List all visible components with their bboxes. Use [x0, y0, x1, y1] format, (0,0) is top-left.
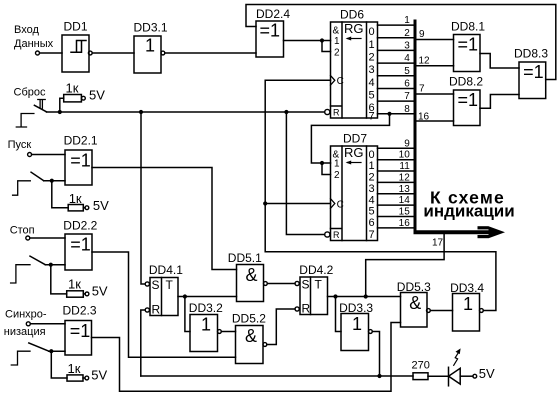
svg-text:1: 1 [334, 36, 340, 47]
svg-text:1к: 1к [68, 361, 81, 376]
svg-text:1к: 1к [66, 81, 79, 96]
svg-text:DD5.2: DD5.2 [232, 312, 266, 326]
pulse edge symbol at SB3 [11, 265, 30, 283]
pulse edge symbol at SB1 [16, 114, 34, 128]
wire Стоп terminal to DD2.2 in1 [30, 237, 65, 239]
junction clock line to DD7 C [263, 201, 267, 205]
junction DD4.2 out to DD3.3 [333, 294, 337, 298]
svg-text:DD5.1: DD5.1 [228, 251, 262, 265]
svg-text:=1: =1 [70, 151, 91, 171]
svg-text:DD2.1: DD2.1 [64, 134, 98, 148]
register DD6 [325, 22, 378, 118]
arrowhead of LED emission [456, 348, 461, 354]
svg-text:R: R [152, 303, 161, 317]
inverter DD3.2 [190, 315, 221, 352]
svg-text:5: 5 [369, 206, 375, 218]
flip-flop DD4.2 [295, 277, 328, 315]
wire DD5.3 out to DD3.4 in [430, 310, 452, 312]
svg-text:T: T [315, 278, 323, 292]
gate DD2.4 [256, 21, 284, 57]
wire DD7 output 2 [378, 170, 414, 172]
svg-text:9: 9 [419, 29, 425, 40]
svg-text:8: 8 [404, 104, 410, 115]
svg-text:=1: =1 [457, 35, 478, 55]
pulse edge symbol at SB2 [13, 181, 31, 195]
svg-text:DD4.1: DD4.1 [149, 263, 183, 277]
resistor R4 1к [67, 375, 83, 381]
inverter DD3.1 [134, 36, 165, 73]
wire DD6 output 7 [378, 113, 414, 115]
svg-text:10: 10 [399, 150, 411, 161]
node 5V terminal of R4 [85, 376, 89, 380]
svg-text:16: 16 [399, 218, 411, 229]
wire bus net 9 to DD8.1 in1 [417, 39, 454, 41]
svg-text:2: 2 [404, 28, 410, 39]
svg-text:0: 0 [369, 149, 375, 161]
svg-text:RG: RG [344, 145, 364, 160]
svg-text:=1: =1 [260, 21, 281, 41]
svg-text:5V: 5V [92, 284, 108, 299]
svg-text:2: 2 [334, 48, 340, 59]
svg-text:5V: 5V [479, 366, 495, 381]
svg-text:DD3.2: DD3.2 [189, 301, 223, 315]
svg-text:9: 9 [404, 138, 410, 149]
svg-text:5V: 5V [91, 368, 107, 383]
svg-text:S: S [152, 278, 160, 292]
gate DD8.3 [519, 62, 546, 99]
svg-text:DD2.3: DD2.3 [63, 304, 97, 318]
svg-text:&: & [409, 293, 421, 313]
svg-text:T: T [166, 278, 174, 292]
svg-text:7: 7 [369, 229, 375, 241]
svg-text:3: 3 [369, 64, 375, 76]
svg-text:7: 7 [369, 111, 375, 123]
wire DD6 output 6 [378, 100, 414, 102]
svg-text:=1: =1 [523, 62, 544, 82]
resistor R3 1к [67, 291, 84, 297]
svg-text:270: 270 [412, 360, 430, 372]
svg-text:Пуск: Пуск [8, 139, 32, 151]
svg-text:1: 1 [352, 314, 362, 334]
svg-text:DD8.3: DD8.3 [514, 47, 548, 61]
svg-text:&: & [245, 265, 257, 285]
wire loop to DD7 pin2 [322, 163, 331, 175]
svg-text:DD2.4: DD2.4 [256, 7, 290, 21]
wire down to R4 [51, 351, 85, 378]
svg-text:DD7: DD7 [343, 132, 367, 146]
wire DD6 output 4 [378, 75, 414, 77]
inverter DD3.4 [453, 294, 484, 332]
wire DD8.1 out to DD8.3 in1 [480, 54, 519, 69]
junction DD6 output 7 to DD7 data [387, 112, 391, 116]
wire DD3.4 out clock line to DD6 C [265, 80, 496, 310]
wire DD7 output 4 [378, 193, 414, 195]
node 5V terminal of R2 [85, 206, 89, 210]
svg-text:S: S [302, 278, 310, 292]
wire DD1 out to DD3.1 [92, 52, 134, 54]
svg-text:C: C [337, 199, 344, 210]
svg-text:3: 3 [369, 183, 375, 195]
node 5V terminal of R3 [85, 292, 89, 296]
wire DD3.3 out to LED line [372, 332, 379, 377]
wire SB3 to DD2.2 in2 [45, 264, 65, 266]
wire DD7 output 6 [378, 216, 414, 218]
wire DD2.1 out to DD5.1 in1 [92, 168, 237, 270]
svg-text:7: 7 [404, 91, 410, 102]
gate DD5.2 [236, 326, 267, 364]
switch SB1 Сброс push-button [34, 100, 46, 112]
wire pin 17 riser to bus [366, 233, 444, 297]
svg-text:6: 6 [404, 79, 410, 90]
svg-text:12: 12 [419, 55, 431, 66]
svg-text:низация: низация [4, 326, 46, 338]
svg-text:2: 2 [334, 170, 340, 181]
svg-text:DD3.3: DD3.3 [339, 301, 373, 315]
svg-text:5V: 5V [89, 88, 105, 103]
wire DD4.2 out to DD5.3 in1 [328, 296, 401, 298]
resistor R1 1к [64, 95, 82, 102]
svg-text:15: 15 [399, 207, 411, 218]
svg-text:Синхро-: Синхро- [5, 309, 47, 321]
junction reset to DD7 R [284, 110, 288, 114]
svg-text:Сброс: Сброс [14, 87, 46, 99]
svg-text:1: 1 [463, 294, 473, 314]
junction DD2.4 out loop [320, 38, 324, 42]
svg-text:17: 17 [432, 238, 444, 249]
gate DD5.3 [401, 293, 431, 328]
wire reset line SB1 to DD6 R [47, 111, 325, 113]
wire DD7 output 1 [378, 159, 414, 161]
svg-text:DD8.1: DD8.1 [451, 20, 485, 34]
node 5V terminal of R1 [82, 96, 86, 100]
wire DD6 output 7 to DD7 pin1 [311, 114, 389, 163]
svg-text:4: 4 [369, 194, 375, 206]
gate DD2.2 [65, 234, 92, 270]
wire reset down to DD7 R [286, 112, 324, 235]
svg-text:RG: RG [344, 21, 364, 36]
wire DD7 output 0 [378, 147, 414, 149]
svg-text:11: 11 [399, 161, 410, 172]
svg-text:1к: 1к [68, 277, 81, 292]
svg-text:&: & [245, 326, 257, 346]
svg-text:=1: =1 [70, 235, 91, 255]
wire R5 to LED [428, 375, 449, 377]
schmitt trigger DD1 [62, 35, 92, 72]
svg-text:&: & [333, 26, 340, 37]
svg-text:14: 14 [399, 195, 411, 206]
svg-text:12: 12 [399, 172, 411, 183]
gate DD8.2 [454, 90, 481, 126]
svg-text:1: 1 [404, 15, 410, 26]
svg-text:1: 1 [369, 39, 375, 51]
bus thick horizontal to arrow [414, 230, 490, 234]
junction reset to R1 [58, 110, 62, 114]
junction SB4 to R4 [49, 349, 53, 353]
node 5V terminal of LED [473, 374, 477, 378]
wire down to R2 [52, 181, 85, 208]
svg-text:3: 3 [404, 40, 410, 51]
switch SB4 Синхронизация [29, 343, 49, 351]
wire SB2 to DD2.1 in2 [44, 180, 65, 182]
junction DD3.3 out on LED line [377, 374, 381, 378]
bus arrowhead [478, 226, 506, 238]
svg-text:R: R [333, 108, 340, 118]
pulse edge symbol at SB4 [11, 351, 30, 365]
svg-text:4: 4 [404, 53, 410, 64]
svg-text:DD8.2: DD8.2 [449, 75, 483, 89]
LED VD1 [449, 352, 461, 386]
wire DD6 output 1 [378, 37, 414, 39]
wire DD2.3 out to DD5.3 in2 [92, 323, 401, 392]
wire DD6 output 5 [378, 88, 414, 90]
svg-text:DD6: DD6 [340, 8, 364, 22]
wire LED line [141, 375, 413, 377]
flip-flop DD4.1 [145, 278, 178, 316]
svg-text:индикации: индикации [423, 202, 514, 221]
gate DD8.1 [454, 35, 481, 72]
svg-text:5V: 5V [93, 198, 109, 213]
svg-text:1: 1 [145, 36, 155, 56]
svg-text:5: 5 [369, 90, 375, 102]
svg-text:DD3.4: DD3.4 [450, 281, 484, 295]
node Пуск input terminal [28, 153, 32, 157]
wire Пуск terminal to DD2.1 in1 [32, 154, 65, 156]
gate DD5.1 [237, 265, 268, 302]
svg-text:C: C [337, 76, 344, 87]
wire DD5.1 out to DD4.2 S [267, 283, 295, 285]
svg-text:1: 1 [369, 160, 375, 172]
svg-text:2: 2 [369, 172, 375, 184]
wire LED to 5V terminal [460, 375, 473, 377]
svg-text:2: 2 [369, 52, 375, 64]
resistor R2 1к [68, 205, 83, 211]
resistor R5 270 [413, 373, 428, 380]
wire DD4.1 out to DD5.1 in2 [178, 296, 237, 298]
wire DD6 output 3 [378, 62, 414, 64]
wire DD5.2 out to DD4.2 R [267, 309, 295, 345]
wire feedback DD8.3 out to DD2.4 in1 [246, 5, 556, 80]
arrowhead of RG pointer DD7 [346, 161, 352, 165]
junction DD7 pin1 loop [320, 161, 324, 165]
node Вход Данных input terminal [36, 51, 40, 55]
wire reset down to DD4.1 S [141, 112, 145, 284]
gate DD2.3 [65, 321, 92, 356]
junction SB3 to R3 [49, 263, 53, 267]
svg-text:1: 1 [334, 159, 340, 170]
svg-text:4: 4 [369, 77, 375, 89]
svg-text:0: 0 [369, 26, 375, 38]
svg-text:DD3.1: DD3.1 [134, 21, 168, 35]
wire down to DD3.2 in [185, 297, 190, 332]
switch SB3 Стоп [30, 256, 45, 265]
svg-text:5: 5 [404, 66, 410, 77]
svg-text:R: R [302, 302, 311, 316]
switch SB2 Пуск [31, 172, 44, 181]
wire input terminal to DD1 [40, 52, 63, 54]
junction SB2 to R2 [50, 179, 54, 183]
node Стоп input terminal [26, 236, 30, 240]
junction reset to DD4.1 S [139, 110, 143, 114]
wire clock line to DD7 C [265, 203, 330, 205]
bus vertical line [414, 20, 417, 233]
svg-text:DD1: DD1 [64, 20, 88, 34]
svg-text:DD4.2: DD4.2 [299, 263, 333, 277]
svg-text:Данных: Данных [14, 38, 54, 50]
svg-text:7: 7 [419, 84, 425, 95]
wire DD7 output 3 [378, 181, 414, 183]
svg-text:1: 1 [201, 315, 211, 335]
register DD7 [325, 146, 378, 241]
svg-text:16: 16 [418, 111, 430, 122]
svg-text:DD2.2: DD2.2 [63, 219, 97, 233]
wire bus net 12 to DD8.1 in2 [417, 65, 454, 67]
wire DD7 output 7 [378, 227, 414, 229]
wire DD3.1 out to DD2.4 in2 [165, 52, 256, 54]
wire DD6 output 0 [378, 24, 414, 26]
junction DD4.2 out to pin 17 riser [364, 294, 368, 298]
svg-text:=1: =1 [70, 321, 91, 341]
arrowhead of RG pointer DD6 [346, 37, 352, 41]
node Синхронизация input terminal [26, 322, 30, 326]
svg-text:DD5.3: DD5.3 [397, 280, 431, 294]
svg-text:R: R [333, 230, 340, 240]
wire DD3.2 out to DD5.2 in1 [221, 331, 235, 333]
wire SB4 to DD2.3 in2 [49, 350, 65, 352]
wire bus net 7 to DD8.2 in1 [417, 93, 454, 95]
wire down to R3 [51, 265, 85, 294]
svg-text:1к: 1к [69, 191, 82, 206]
wire loop to DD6 pin2 [322, 41, 331, 52]
net К схеме индикации [423, 188, 514, 221]
wire down to DD3.3 in [336, 297, 342, 332]
wire R1 lead [60, 98, 64, 112]
wire DD2.4 out to DD6 pin1 [284, 40, 331, 42]
svg-text:6: 6 [369, 217, 375, 229]
wire DD8.2 out to DD8.3 in2 [480, 95, 519, 109]
svg-text:13: 13 [399, 184, 411, 195]
inverter DD3.3 [341, 314, 372, 351]
wire DD4.1 R to LED line [141, 310, 145, 376]
svg-text:Стоп: Стоп [10, 224, 35, 236]
wire DD2.2 out to DD5.2 in2 [92, 252, 236, 357]
svg-text:=1: =1 [457, 90, 478, 110]
wire DD7 output 5 [378, 204, 414, 206]
wire bus net 16 to DD8.2 in2 [417, 120, 454, 122]
gate DD2.1 [65, 150, 92, 185]
svg-text:Вход: Вход [14, 24, 39, 36]
wire Синхронизация terminal to DD2.3 in1 [30, 323, 65, 325]
wire DD6 output 2 [378, 49, 414, 51]
junction DD4.1 out to DD3.2 [183, 294, 187, 298]
